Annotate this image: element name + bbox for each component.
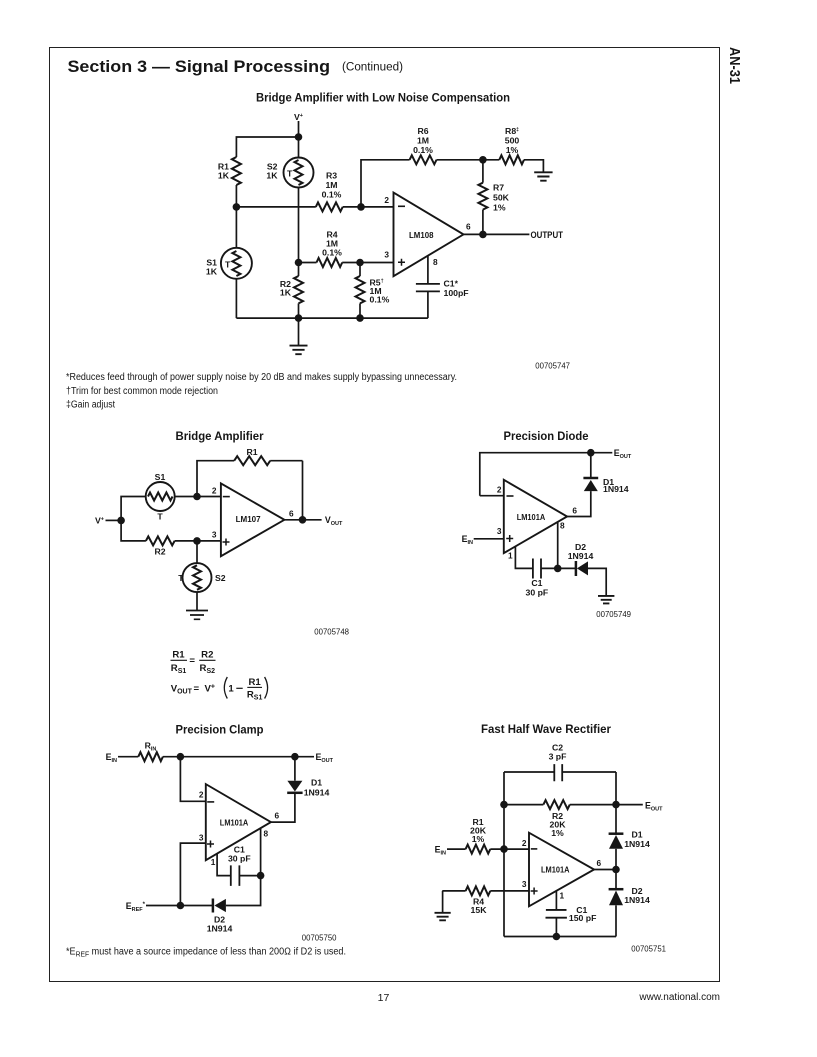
capacitor C1	[546, 910, 567, 918]
svg-text:R7: R7	[493, 183, 504, 193]
svg-text:Bridge Amplifier with Low Nois: Bridge Amplifier with Low Noise Compensa…	[256, 91, 510, 105]
wire R6 to node	[437, 159, 500, 161]
svg-text:8: 8	[264, 829, 269, 839]
wire top run to EOUT	[163, 756, 314, 758]
node output junction	[299, 516, 307, 524]
svg-text:6: 6	[466, 222, 471, 232]
capacitor C1	[231, 865, 240, 886]
svg-text:R6: R6	[417, 126, 428, 136]
op-amp U4 LM101A	[206, 784, 271, 860]
node output junction	[612, 866, 620, 874]
svg-text:00705748: 00705748	[314, 628, 349, 637]
svg-text:1N914: 1N914	[603, 484, 629, 494]
resistor R6	[410, 155, 437, 164]
svg-text:0.1%: 0.1%	[413, 145, 433, 155]
svg-text:LM101A: LM101A	[220, 817, 249, 827]
wire C1 bottom	[427, 291, 429, 318]
wire pin 1 stem	[217, 854, 231, 876]
node feedback junction pin2	[357, 203, 365, 211]
ground	[186, 611, 208, 620]
svg-text:2: 2	[497, 485, 502, 495]
svg-text:2: 2	[212, 486, 217, 496]
svg-text:3: 3	[212, 530, 217, 540]
svg-text:1M: 1M	[417, 136, 429, 146]
page footer	[378, 992, 720, 1004]
diode D2 1N914	[615, 870, 617, 890]
wire output to D1	[271, 793, 295, 822]
wire top C2 run	[504, 771, 616, 773]
svg-text:R2: R2	[201, 650, 213, 661]
node C1/pin8 junction	[257, 872, 265, 880]
diode D1 1N914	[287, 781, 302, 792]
resistor R1	[234, 456, 270, 465]
svg-text:1N914: 1N914	[624, 839, 650, 849]
wire S2 to ground	[196, 592, 198, 610]
svg-text:1: 1	[211, 857, 216, 867]
sensor S2 (thermistor)	[298, 137, 300, 158]
svg-text:*Reduces feed through of power: *Reduces feed through of power supply no…	[66, 372, 457, 383]
svg-text:1%: 1%	[493, 203, 506, 213]
svg-text:R3: R3	[326, 171, 337, 181]
node pin2 junction	[500, 845, 508, 853]
svg-text:3: 3	[497, 526, 502, 536]
svg-text:R1: R1	[248, 677, 261, 688]
resistor R4	[317, 258, 343, 267]
wire R3 to op-amp pin 2	[343, 206, 394, 208]
node right R2 junction	[612, 801, 620, 809]
wire R1 bottom	[235, 185, 237, 207]
node EREF junction	[177, 902, 185, 910]
node rail R5 junction	[356, 314, 364, 322]
wire top-left to R1	[236, 137, 298, 157]
wire R2 to op-amp pin 3	[175, 540, 221, 542]
svg-text:=: =	[194, 684, 200, 695]
svg-text:2: 2	[199, 790, 204, 800]
wire pin 2	[480, 495, 504, 497]
node V+ junction	[117, 517, 125, 525]
svg-text:150 pF: 150 pF	[569, 913, 597, 923]
svg-text:D1: D1	[311, 777, 322, 787]
svg-text:R1: R1	[246, 447, 257, 457]
svg-text:2: 2	[522, 838, 527, 848]
resistor R1	[466, 845, 491, 854]
wire pin 8 stem	[427, 256, 429, 284]
node left R2 junction	[500, 801, 508, 809]
svg-text:T: T	[225, 260, 231, 270]
svg-text:Fast Half Wave Rectifier: Fast Half Wave Rectifier	[481, 722, 611, 736]
capacitor C1	[416, 284, 440, 292]
svg-text:17: 17	[378, 992, 390, 1004]
sensor S1 (thermistor)	[235, 207, 237, 248]
node R4 left junction	[295, 259, 303, 267]
resistor R4	[466, 886, 491, 895]
svg-text:8: 8	[433, 257, 438, 267]
svg-text:*EREF must have a source imped: *EREF must have a source impedance of le…	[66, 947, 346, 959]
op-amp U5 LM101A	[529, 833, 594, 907]
node pin3/S2 junction	[193, 537, 201, 545]
svg-text:S1: S1	[155, 472, 166, 482]
svg-text:‡Gain adjust: ‡Gain adjust	[66, 400, 115, 411]
svg-text:30 pF: 30 pF	[526, 587, 549, 597]
wire bottom rail	[236, 317, 428, 319]
resistor R2	[543, 800, 569, 809]
diode D1 1N914	[609, 832, 624, 835]
formulas under circuit 2	[171, 650, 268, 702]
svg-text:S2: S2	[215, 573, 226, 583]
svg-text:AN-31: AN-31	[726, 47, 743, 84]
wire output	[284, 519, 321, 521]
wire EIN to pin 3	[474, 538, 504, 540]
resistor R2	[298, 263, 300, 277]
svg-text:C1*: C1*	[444, 279, 459, 289]
wire feedback riser	[361, 160, 410, 207]
svg-text:C1: C1	[531, 578, 542, 588]
svg-text:†Trim for best common mode rej: †Trim for best common mode rejection	[66, 386, 218, 397]
wire pin 3 to EREF rail	[180, 843, 205, 905]
resistor R2	[146, 536, 175, 545]
op-amp U3 LM101A	[504, 480, 567, 553]
svg-text:LM108: LM108	[409, 230, 434, 240]
wire to R2	[121, 520, 146, 541]
resistor R5	[359, 263, 361, 277]
node feedback/S1 junction	[193, 493, 201, 501]
svg-text:1: 1	[228, 684, 234, 695]
node R5 top junction	[356, 259, 364, 267]
svg-text:00705751: 00705751	[631, 945, 666, 954]
svg-text:(Continued): (Continued)	[342, 62, 403, 74]
resistor RIN	[138, 752, 163, 761]
svg-text:3: 3	[199, 833, 204, 843]
sensor S1 (thermistor)	[175, 496, 197, 498]
resistor R8	[499, 155, 524, 164]
svg-text:8: 8	[560, 521, 565, 531]
page frame	[50, 48, 720, 982]
svg-text:T: T	[287, 169, 293, 179]
wire R4 to op-amp pin 3	[342, 262, 393, 264]
wire D2 to ground	[588, 568, 606, 596]
svg-text:OUTPUT: OUTPUT	[531, 230, 564, 241]
svg-text:00705749: 00705749	[596, 610, 631, 619]
node D1 top junction	[291, 753, 299, 761]
svg-text:1%: 1%	[506, 145, 519, 155]
svg-text:3 pF: 3 pF	[549, 752, 567, 762]
svg-text:100pF: 100pF	[444, 288, 469, 298]
node junction R1/S1/R3 row	[233, 203, 241, 211]
diode D1 1N914	[584, 480, 598, 491]
resistor R7	[482, 160, 484, 183]
svg-text:Precision Diode: Precision Diode	[504, 429, 589, 443]
node V+ junction dot	[295, 133, 303, 141]
wire EIN to RIN	[118, 756, 138, 758]
resistor R1	[232, 157, 241, 185]
footnotes for circuit 1	[66, 372, 457, 411]
wire S1 bottom to rail	[235, 279, 237, 318]
diode D2 1N914	[212, 899, 215, 913]
svg-text:1K: 1K	[266, 171, 278, 181]
svg-text:1K: 1K	[206, 267, 218, 277]
svg-text:1M: 1M	[325, 180, 337, 190]
node input junction	[177, 753, 185, 761]
wire plus input row	[442, 890, 529, 892]
svg-text:Precision Clamp: Precision Clamp	[176, 723, 264, 737]
svg-text:30 pF: 30 pF	[228, 854, 251, 864]
svg-text:1: 1	[508, 551, 513, 561]
wire pin 1 stem	[555, 891, 557, 910]
svg-text:3: 3	[522, 879, 527, 889]
svg-text:LM101A: LM101A	[517, 512, 546, 522]
svg-text:00705750: 00705750	[302, 934, 337, 943]
svg-text:LM107: LM107	[236, 514, 261, 524]
node rail R2 junction	[295, 314, 303, 322]
svg-text:1N914: 1N914	[568, 551, 594, 561]
wire S2 bottom down to R4 node	[298, 188, 300, 263]
wire top feedback run	[480, 453, 613, 496]
node output junction	[479, 231, 487, 239]
svg-text:www.national.com: www.national.com	[638, 992, 720, 1003]
wire output	[594, 869, 616, 871]
svg-text:Bridge Amplifier: Bridge Amplifier	[176, 429, 264, 443]
svg-text:1N914: 1N914	[207, 924, 233, 934]
ground (main)	[298, 318, 300, 346]
wire top feedback run	[197, 461, 303, 497]
svg-text:6: 6	[275, 811, 280, 821]
wire R8 to ground	[524, 160, 543, 173]
footnote for precision clamp	[66, 947, 346, 959]
svg-text:R2: R2	[154, 547, 165, 557]
wire V+ stub	[106, 519, 122, 521]
node EOUT junction	[587, 449, 595, 457]
sensor S2 (thermistor)	[196, 541, 198, 563]
wire R7 bottom to output node	[482, 210, 484, 235]
svg-text:1K: 1K	[218, 171, 230, 181]
svg-text:3: 3	[384, 250, 389, 260]
wire pin 1 stem	[515, 547, 533, 569]
wire output to D1	[567, 491, 591, 516]
svg-text:1: 1	[560, 891, 565, 901]
svg-text:T: T	[178, 573, 184, 583]
svg-text:6: 6	[597, 858, 602, 868]
wire inverting input row	[236, 206, 315, 208]
svg-text:15K: 15K	[471, 905, 488, 915]
svg-text:1%: 1%	[472, 834, 485, 844]
svg-text:00705747: 00705747	[535, 362, 570, 371]
ground (left)	[442, 891, 444, 913]
op-amp U1 LM108	[394, 193, 464, 277]
svg-text:R1: R1	[172, 650, 185, 661]
wire pin 8 stem	[260, 828, 262, 875]
svg-text:0.1%: 0.1%	[322, 247, 342, 257]
svg-text:1N914: 1N914	[304, 787, 330, 797]
svg-text:T: T	[157, 512, 163, 522]
svg-text:6: 6	[289, 509, 294, 519]
svg-text:500: 500	[505, 136, 520, 146]
svg-text:Section 3 — Signal Processing: Section 3 — Signal Processing	[68, 57, 331, 76]
ground (R8)	[534, 172, 552, 180]
wire node to D2	[558, 567, 575, 569]
svg-text:1%: 1%	[551, 828, 564, 838]
svg-text:1N914: 1N914	[624, 895, 650, 905]
node R6/R7/R8 junction	[479, 156, 487, 164]
node C1 bottom junction	[553, 933, 561, 941]
resistor R3	[316, 202, 343, 211]
wire EIN to R1	[447, 848, 466, 850]
svg-text:6: 6	[572, 506, 577, 516]
wire R1 to pin 2	[490, 848, 529, 850]
wire feedback right vertical	[302, 461, 304, 520]
wire bottom rail	[504, 936, 616, 938]
svg-text:0.1%: 0.1%	[370, 294, 390, 304]
op-amp U2 LM107	[221, 483, 285, 556]
svg-text:1K: 1K	[280, 287, 292, 297]
wire right vertical top segment	[615, 772, 617, 834]
wire pin 2	[197, 496, 221, 498]
wire pin 8 stem	[557, 522, 559, 568]
wire EREF run	[146, 905, 212, 907]
wire left vertical	[503, 772, 505, 937]
wire R4 left	[299, 262, 317, 264]
svg-text:2: 2	[384, 195, 389, 205]
wire R2 row to EOUT	[504, 804, 643, 806]
svg-text:50K: 50K	[493, 193, 510, 203]
wire V+ stem	[298, 121, 300, 137]
diode D2 1N914	[575, 561, 578, 576]
svg-text:LM101A: LM101A	[541, 865, 570, 875]
svg-text:=: =	[189, 656, 195, 667]
capacitor C1	[533, 559, 541, 579]
svg-text:0.1%: 0.1%	[322, 190, 342, 200]
node C1/D2 junction	[554, 565, 562, 573]
wire output	[464, 233, 530, 235]
ground	[598, 596, 614, 604]
wire pin 2	[180, 757, 205, 802]
